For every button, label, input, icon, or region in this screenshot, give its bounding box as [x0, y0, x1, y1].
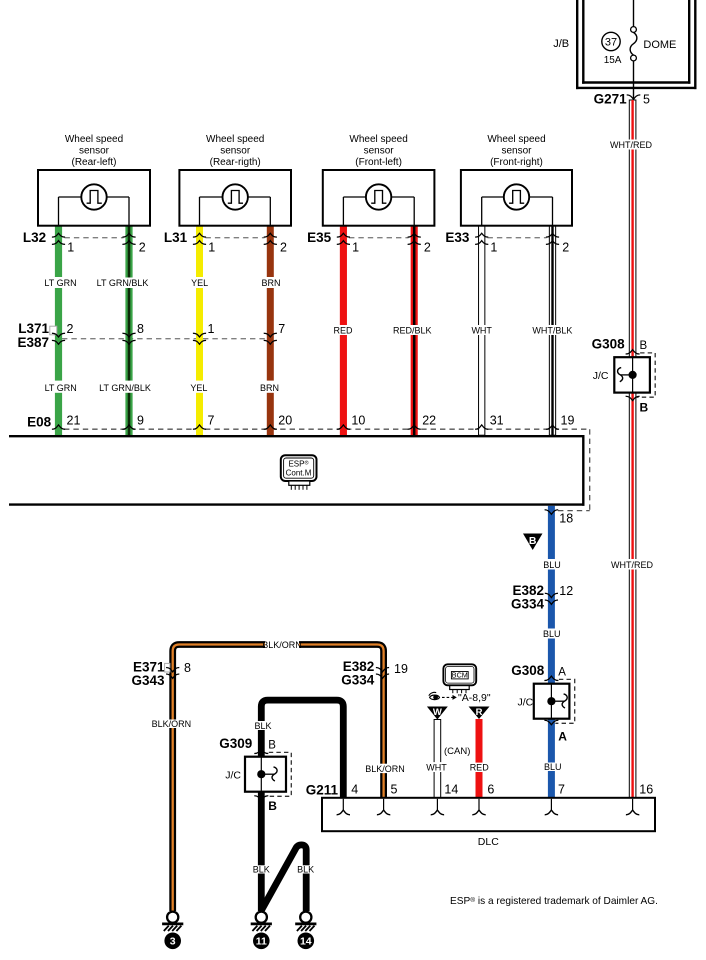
svg-text:BLU: BLU	[543, 629, 561, 639]
svg-text:G334: G334	[511, 596, 545, 611]
svg-text:L371: L371	[18, 321, 49, 336]
svg-text:Wheel speed: Wheel speed	[487, 134, 545, 145]
svg-text:7: 7	[208, 413, 215, 427]
svg-text:1: 1	[352, 240, 359, 254]
svg-text:sensor: sensor	[79, 145, 110, 156]
svg-text:18: 18	[559, 511, 573, 525]
svg-text:LT GRN: LT GRN	[44, 278, 76, 288]
svg-text:14: 14	[300, 936, 312, 948]
svg-text:B: B	[529, 535, 537, 547]
svg-text:1: 1	[208, 240, 215, 254]
svg-text:(Front-right): (Front-right)	[490, 157, 543, 168]
svg-text:E387: E387	[17, 335, 49, 350]
svg-text:L31: L31	[164, 230, 188, 245]
svg-text:sensor: sensor	[501, 145, 532, 156]
svg-text:RED: RED	[333, 326, 353, 336]
svg-text:B: B	[640, 340, 648, 352]
svg-text:(Rear-rigth): (Rear-rigth)	[210, 157, 261, 168]
svg-text:G334: G334	[341, 673, 375, 688]
svg-text:Wheel speed: Wheel speed	[65, 134, 123, 145]
svg-text:BLK: BLK	[297, 864, 314, 874]
svg-text:BLK/ORN: BLK/ORN	[152, 719, 192, 729]
svg-text:LT GRN/BLK: LT GRN/BLK	[99, 383, 151, 393]
svg-text:G309: G309	[219, 736, 252, 751]
svg-text:10: 10	[351, 413, 365, 427]
svg-text:4: 4	[351, 783, 358, 797]
svg-text:ESP® is a registered trademark: ESP® is a registered trademark of Daimle…	[450, 896, 658, 907]
svg-text:14: 14	[444, 783, 458, 797]
svg-text:1: 1	[490, 240, 497, 254]
svg-text:G211: G211	[306, 782, 339, 797]
svg-text:BLU: BLU	[544, 762, 562, 772]
svg-text:20: 20	[278, 413, 292, 427]
svg-text:WHT: WHT	[471, 326, 492, 336]
svg-text:2: 2	[562, 240, 569, 254]
svg-text:9: 9	[137, 413, 144, 427]
svg-text:7: 7	[558, 783, 565, 797]
svg-text:B: B	[268, 739, 276, 751]
svg-text:DOME: DOME	[643, 39, 676, 51]
svg-text:G308: G308	[511, 663, 545, 678]
svg-text:(Front-left): (Front-left)	[355, 157, 402, 168]
svg-text:Wheel speed: Wheel speed	[349, 134, 407, 145]
svg-text:Wheel speed: Wheel speed	[206, 134, 264, 145]
svg-text:BLK: BLK	[254, 721, 271, 731]
svg-text:2: 2	[280, 240, 287, 254]
svg-text:WHT: WHT	[426, 762, 447, 772]
svg-text:15A: 15A	[604, 55, 622, 66]
svg-text:2: 2	[139, 240, 146, 254]
svg-text:LT GRN/BLK: LT GRN/BLK	[97, 278, 149, 288]
svg-text:LT GRN: LT GRN	[45, 383, 77, 393]
svg-text:WHT/RED: WHT/RED	[611, 560, 653, 570]
svg-text:J/C: J/C	[225, 769, 241, 781]
svg-text:A: A	[558, 666, 566, 678]
svg-text:E08: E08	[27, 415, 52, 430]
svg-text:5: 5	[643, 92, 650, 106]
svg-text:21: 21	[67, 413, 81, 427]
svg-text:2: 2	[424, 240, 431, 254]
svg-text:YEL: YEL	[190, 383, 207, 393]
svg-text:5: 5	[391, 783, 398, 797]
svg-text:"A-8,9": "A-8,9"	[458, 692, 491, 704]
svg-text:RED: RED	[470, 763, 490, 773]
svg-text:7: 7	[278, 322, 285, 336]
svg-text:DLC: DLC	[478, 836, 499, 848]
svg-text:BCM: BCM	[452, 671, 468, 680]
svg-text:1: 1	[67, 240, 74, 254]
svg-text:G271: G271	[594, 91, 628, 106]
svg-text:19: 19	[394, 662, 408, 676]
svg-text:sensor: sensor	[364, 145, 395, 156]
svg-text:G308: G308	[592, 337, 626, 352]
svg-text:B: B	[268, 799, 277, 813]
svg-text:37: 37	[605, 37, 617, 49]
svg-text:L32: L32	[23, 230, 46, 245]
svg-text:RED/BLK: RED/BLK	[393, 326, 432, 336]
svg-text:YEL: YEL	[191, 278, 208, 288]
svg-text:8: 8	[137, 322, 144, 336]
svg-text:BLK/ORN: BLK/ORN	[262, 640, 302, 650]
svg-text:BLU: BLU	[543, 560, 561, 570]
svg-text:2: 2	[67, 322, 74, 336]
svg-text:E33: E33	[445, 230, 470, 245]
svg-text:J/B: J/B	[553, 38, 569, 50]
svg-text:E35: E35	[307, 230, 332, 245]
svg-text:R: R	[476, 707, 483, 718]
svg-text:J/C: J/C	[517, 696, 533, 708]
svg-text:16: 16	[639, 783, 653, 797]
svg-text:11: 11	[256, 936, 267, 948]
svg-text:B: B	[640, 401, 649, 415]
svg-text:3: 3	[170, 936, 176, 948]
svg-text:(Rear-left): (Rear-left)	[71, 157, 116, 168]
svg-text:31: 31	[490, 413, 504, 427]
svg-text:G343: G343	[131, 673, 165, 688]
svg-text:BLK/ORN: BLK/ORN	[365, 764, 405, 774]
svg-text:WHT/RED: WHT/RED	[610, 140, 652, 150]
svg-text:A: A	[558, 730, 567, 744]
svg-text:12: 12	[559, 584, 573, 598]
svg-text:WHT/BLK: WHT/BLK	[532, 326, 572, 336]
svg-text:22: 22	[422, 413, 436, 427]
svg-text:BLK: BLK	[253, 864, 270, 874]
svg-text:Cont.M: Cont.M	[286, 468, 312, 477]
svg-text:J/C: J/C	[593, 370, 609, 382]
svg-text:19: 19	[561, 413, 575, 427]
svg-text:sensor: sensor	[220, 145, 251, 156]
svg-text:1: 1	[208, 322, 215, 336]
svg-text:W: W	[433, 707, 442, 718]
svg-text:(CAN): (CAN)	[444, 746, 470, 757]
svg-text:BRN: BRN	[260, 383, 279, 393]
svg-text:8: 8	[184, 661, 191, 675]
svg-text:BRN: BRN	[261, 278, 280, 288]
svg-text:6: 6	[487, 783, 494, 797]
